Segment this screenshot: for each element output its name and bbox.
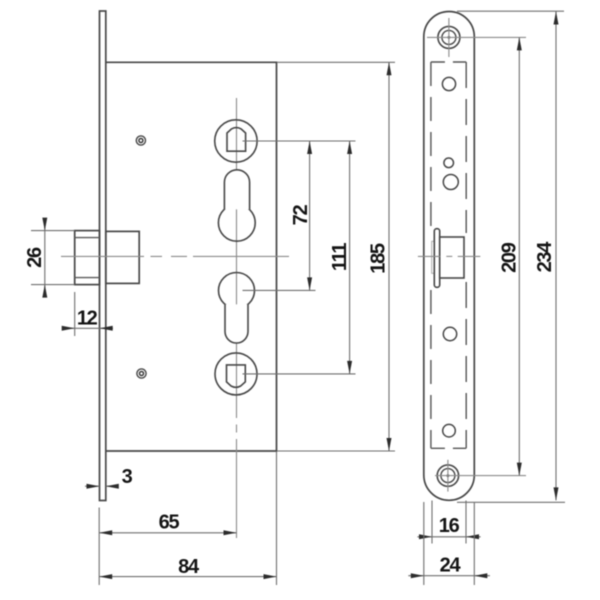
latch bolt inner part xyxy=(106,231,139,283)
dim 72/111 top ext line xyxy=(243,140,356,142)
dim 234 top ext line xyxy=(457,10,564,12)
svg-text:84: 84 xyxy=(178,556,200,578)
dim 24 ext lines xyxy=(423,502,425,585)
hidden case outline (dashed) top xyxy=(431,61,466,63)
bottom screw crosshair xyxy=(447,460,449,492)
svg-text:3: 3 xyxy=(122,466,133,488)
square spindle hole top xyxy=(227,128,246,152)
dim 234 line xyxy=(555,12,557,501)
plate hole D xyxy=(443,327,456,340)
plate hole C xyxy=(443,175,458,190)
dim 84 line xyxy=(99,576,276,578)
dim 185 line xyxy=(388,62,390,451)
dim 185 top ext line xyxy=(278,61,396,63)
dim 3 line xyxy=(85,485,100,487)
bottom screw hole xyxy=(437,465,458,486)
faceplate front outline (stadium) xyxy=(424,12,475,501)
square spindle hole bottom xyxy=(227,365,246,387)
dim 16 line xyxy=(417,536,480,538)
dim 12 ext line xyxy=(74,292,76,336)
svg-text:185: 185 xyxy=(368,243,390,274)
latch centerline xyxy=(61,255,289,257)
svg-text:12: 12 xyxy=(77,308,98,330)
plate hole E xyxy=(443,424,456,437)
hidden case outline (dashed) left xyxy=(430,62,432,228)
svg-text:111: 111 xyxy=(329,243,351,271)
hidden case outline (dashed) bottom xyxy=(431,447,466,449)
dim 72 bottom ext line xyxy=(243,289,316,291)
dim 12 line xyxy=(63,327,113,329)
dim 209 line xyxy=(518,37,520,475)
dim 24 line xyxy=(408,575,490,577)
dim 72 line xyxy=(309,141,311,290)
latch bevel line top xyxy=(75,237,100,239)
fixing hole bottom xyxy=(137,369,146,378)
svg-text:26: 26 xyxy=(24,247,46,268)
svg-text:65: 65 xyxy=(159,512,180,534)
dim 16 ext lines xyxy=(431,501,433,544)
fixing hole top xyxy=(136,136,145,145)
dim 26 ext lines xyxy=(31,230,75,232)
svg-text:209: 209 xyxy=(499,242,521,273)
lock body outline xyxy=(106,62,277,451)
euro keyhole lower : circle xyxy=(219,273,255,309)
dim 185 bottom ext line xyxy=(278,450,396,452)
top screw crosshair xyxy=(448,18,450,57)
euro keyhole upper : circle xyxy=(218,204,255,241)
dim 234 bottom ext line xyxy=(457,501,565,503)
plate hole A xyxy=(442,77,455,90)
latch bevel line bottom xyxy=(75,277,100,279)
latch front view : bolt head xyxy=(440,237,464,278)
dim 84 right ext line xyxy=(276,452,278,585)
top screw hole xyxy=(438,26,460,48)
dim 111 bottom ext line xyxy=(243,373,356,375)
latch bolt outer part xyxy=(75,231,100,285)
follower circle top xyxy=(215,120,257,162)
latch front view centerline xyxy=(418,255,440,257)
dim 65 line xyxy=(99,532,236,534)
plate hole B xyxy=(444,158,454,168)
dim 26 line xyxy=(44,219,46,293)
latch front view : lip xyxy=(434,229,439,288)
cylinder vertical centerline xyxy=(236,98,238,538)
hidden case outline (dashed) right xyxy=(465,62,467,233)
faceplate side bar xyxy=(100,11,106,501)
latch front view : cutout sliver xyxy=(432,241,435,273)
dim 111 line xyxy=(349,141,351,374)
dim 65/84 left ext line xyxy=(98,508,100,586)
svg-text:72: 72 xyxy=(290,205,312,226)
svg-text:16: 16 xyxy=(439,515,460,537)
svg-text:234: 234 xyxy=(534,241,556,273)
euro keyhole upper : stem xyxy=(224,170,249,210)
euro keyhole lower : stem xyxy=(225,304,248,343)
follower circle bottom xyxy=(215,353,257,395)
svg-text:24: 24 xyxy=(440,555,462,577)
